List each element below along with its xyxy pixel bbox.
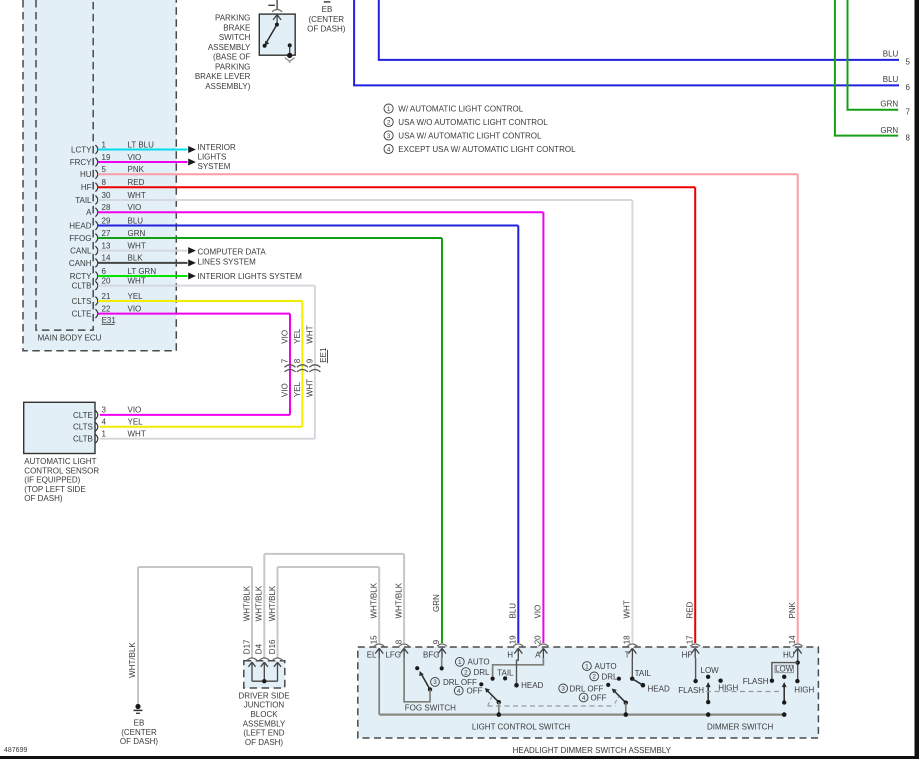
wire CLTS YEL horizontal: [98, 300, 302, 302]
svg-text:8: 8: [394, 639, 403, 644]
svg-text:4: 4: [387, 146, 391, 153]
LCS-left pivot dot: [497, 700, 501, 704]
terminal LFG arrow: [400, 648, 408, 658]
LCS-right circled 2 DRL: [590, 672, 599, 681]
svg-text:3: 3: [387, 133, 391, 140]
svg-text:WHT: WHT: [128, 430, 146, 439]
ECU pin CLTE connector bracket: [95, 309, 97, 318]
svg-text:21: 21: [102, 292, 111, 301]
LCS-left circled 2 DRL: [462, 668, 471, 677]
terminal H arrow: [514, 648, 522, 658]
LCS-right DRL contact dot: [617, 677, 621, 681]
svg-text:2: 2: [592, 674, 596, 681]
wire GRN 7 horizontal: [847, 109, 899, 111]
svg-text:JUNCTION: JUNCTION: [244, 701, 285, 710]
arrow to computer data lines (CANH): [188, 259, 196, 266]
svg-text:D16: D16: [268, 639, 277, 654]
svg-text:OF DASH): OF DASH): [307, 25, 346, 34]
wire CANL WHT: [98, 250, 188, 252]
dimmer-left pivot dot: [706, 700, 710, 704]
wire A VIO horizontal: [98, 211, 543, 213]
svg-text:1: 1: [585, 663, 589, 670]
svg-text:TAIL: TAIL: [497, 668, 514, 677]
parking brake ground dot: [287, 53, 292, 58]
wire HEAD BLU horizontal: [98, 225, 518, 227]
svg-text:CANL: CANL: [70, 247, 92, 256]
svg-text:20: 20: [102, 276, 111, 285]
junction block internal junction dot: [262, 679, 266, 683]
wire A VIO vertical: [542, 212, 544, 643]
svg-text:1: 1: [102, 140, 107, 149]
fog switch pivot dot: [428, 687, 432, 691]
svg-text:OF DASH): OF DASH): [24, 494, 63, 503]
svg-text:PNK: PNK: [788, 601, 797, 618]
parking brake switch upper contact: [276, 22, 278, 25]
svg-text:487699: 487699: [4, 747, 27, 754]
svg-text:VIO: VIO: [128, 153, 142, 162]
svg-text:ASSEMBLY: ASSEMBLY: [243, 719, 286, 728]
svg-text:15: 15: [369, 635, 378, 644]
svg-text:USA W/O AUTOMATIC LIGHT CONTRO: USA W/O AUTOMATIC LIGHT CONTROL: [398, 118, 548, 127]
wire EL vertical: [378, 567, 380, 643]
sensor pin CLTB connector bracket: [95, 434, 97, 443]
svg-text:4: 4: [582, 695, 586, 702]
arrow to computer data lines (CANL): [188, 247, 196, 254]
wire CLTB WHT horizontal: [98, 285, 315, 287]
wire D4 to LFG horizontal: [264, 553, 404, 555]
sensor pin CLTS connector bracket: [95, 422, 97, 431]
dimmer-right blade: [783, 686, 785, 703]
svg-text:BLU: BLU: [128, 216, 144, 225]
dimmer-right FLASH contact dot: [770, 679, 774, 683]
fog switch left contact dot: [415, 666, 419, 670]
svg-text:2: 2: [464, 669, 468, 676]
arrow to interior lights system (FRCY): [188, 159, 196, 166]
fog switch pivot to LFG path: [404, 658, 430, 702]
page frame right border: [915, 0, 920, 759]
LCS-left HEAD contact dot: [514, 683, 519, 688]
parking brake ground arrow: [285, 58, 295, 63]
svg-text:HF: HF: [682, 651, 693, 660]
svg-text:3: 3: [561, 686, 565, 693]
svg-text:ASSEMBLY): ASSEMBLY): [205, 82, 251, 91]
svg-text:29: 29: [102, 216, 111, 225]
svg-text:USA W/ AUTOMATIC LIGHT CONTROL: USA W/ AUTOMATIC LIGHT CONTROL: [398, 132, 542, 141]
ECU pin CLTB connector bracket: [95, 281, 97, 290]
LCS-right TAIL-HEAD diagonal: [632, 679, 643, 686]
svg-text:COMPUTER DATA: COMPUTER DATA: [198, 248, 267, 257]
junction block shaded dashed box: [244, 661, 285, 688]
svg-text:WHT: WHT: [128, 191, 146, 200]
EB ground symbol: [135, 704, 140, 709]
terminal H connector arc: [513, 644, 523, 646]
svg-text:(IF EQUIPPED): (IF EQUIPPED): [24, 476, 80, 485]
LCS mechanical link dashed line: [488, 705, 616, 707]
svg-text:CONTROL SENSOR: CONTROL SENSOR: [24, 466, 99, 475]
svg-text:AUTOMATIC LIGHT: AUTOMATIC LIGHT: [24, 457, 96, 466]
ECU pin LCTY connector bracket: [95, 145, 97, 154]
dimmer-left HF wire: [695, 658, 697, 681]
dimmer-right HU junction dot: [796, 660, 800, 664]
svg-text:LIGHTS: LIGHTS: [198, 153, 227, 162]
svg-text:FLASH: FLASH: [678, 686, 704, 695]
wire CLTS YEL lower horizontal: [100, 426, 302, 428]
svg-text:WHT/BLK: WHT/BLK: [242, 585, 251, 621]
svg-text:T: T: [625, 651, 630, 660]
svg-text:FFOG: FFOG: [69, 234, 91, 243]
svg-text:14: 14: [102, 254, 111, 263]
svg-text:HEAD: HEAD: [648, 684, 670, 693]
LCS-left circled 1 AUTO: [455, 657, 464, 666]
svg-text:A: A: [535, 651, 541, 660]
svg-text:PNK: PNK: [128, 165, 145, 174]
svg-text:FLASH: FLASH: [743, 677, 769, 686]
svg-text:WHT: WHT: [305, 379, 314, 397]
svg-text:YEL: YEL: [128, 418, 144, 427]
svg-text:CLTS: CLTS: [73, 423, 93, 432]
note 2 circled number: [384, 117, 393, 126]
wire HU PNK horizontal: [98, 173, 798, 175]
dimmer-right pivot dot: [782, 700, 786, 704]
svg-text:LIGHT CONTROL SWITCH: LIGHT CONTROL SWITCH: [472, 723, 570, 732]
svg-text:30: 30: [102, 191, 111, 200]
note 1 circled number: [384, 104, 393, 113]
svg-text:OF DASH): OF DASH): [245, 738, 284, 747]
svg-text:INTERIOR: INTERIOR: [198, 143, 236, 152]
svg-text:RED: RED: [128, 178, 145, 187]
LCS-right T wire: [631, 658, 633, 679]
svg-text:7: 7: [906, 107, 911, 116]
svg-text:BLU: BLU: [509, 603, 518, 619]
svg-text:AUTO: AUTO: [595, 662, 617, 671]
svg-text:4: 4: [102, 418, 107, 427]
svg-text:DRIVER SIDE: DRIVER SIDE: [238, 691, 289, 700]
wire BLU 5 horizontal: [378, 59, 899, 61]
svg-text:VIO: VIO: [534, 605, 543, 619]
ECU pin FRCY connector bracket: [95, 158, 97, 167]
fog switch blade: [421, 674, 430, 690]
svg-text:WHT/BLK: WHT/BLK: [255, 585, 264, 621]
junction block internal bus: [252, 680, 278, 682]
svg-text:W/ AUTOMATIC LIGHT CONTROL: W/ AUTOMATIC LIGHT CONTROL: [398, 105, 523, 114]
terminal T connector arc: [627, 644, 637, 646]
terminal HU connector arc: [793, 644, 803, 646]
svg-text:GRN: GRN: [880, 99, 898, 108]
wire RCTY LT GRN: [98, 275, 188, 277]
svg-text:20: 20: [534, 635, 543, 644]
svg-text:SYSTEM: SYSTEM: [198, 162, 231, 171]
svg-text:HF: HF: [81, 183, 92, 192]
svg-text:BLU: BLU: [883, 49, 899, 58]
svg-text:OF DASH): OF DASH): [120, 737, 159, 746]
svg-text:17: 17: [685, 635, 694, 644]
LCS-right DRL OFF contact dot: [606, 683, 610, 687]
svg-text:OFF: OFF: [591, 693, 607, 702]
wire D4 vertical: [263, 554, 265, 658]
svg-text:BFG: BFG: [423, 651, 439, 660]
svg-text:3: 3: [102, 406, 107, 415]
terminal HF connector arc: [690, 644, 700, 646]
svg-text:27: 27: [102, 229, 111, 238]
svg-text:BRAKE: BRAKE: [223, 23, 250, 32]
dimmer-right HU to FLASH path: [772, 663, 798, 681]
main body ECU shaded box: [23, 0, 176, 351]
LCS-left pivot to bus: [498, 702, 500, 714]
ECU pin FFOG connector bracket: [95, 234, 97, 243]
dimmer-left LOW contact dot: [706, 675, 710, 679]
LCS-left blade: [487, 691, 499, 703]
svg-text:8: 8: [293, 358, 302, 363]
svg-text:CLTB: CLTB: [73, 435, 93, 444]
EL wire vertical inside box: [378, 658, 380, 715]
svg-text:BLK: BLK: [128, 254, 144, 263]
wire CLTB WHT vertical: [314, 286, 316, 439]
LCS-left circled 3 DRL OFF: [431, 678, 440, 687]
LCS-right circled 4 OFF: [579, 693, 588, 702]
arrow to interior lights system (LCTY): [188, 146, 196, 153]
wire CLTE VIO vertical: [289, 314, 291, 415]
svg-text:GRN: GRN: [880, 126, 898, 135]
ECU pin CANL connector bracket: [95, 246, 97, 255]
wire GRN 8 horizontal: [834, 135, 898, 137]
svg-text:HEAD: HEAD: [69, 221, 91, 230]
LCS-right TAIL contact dot: [630, 677, 634, 681]
terminal BFG connector arc: [437, 644, 447, 646]
parking brake connector arc: [272, 10, 282, 12]
EB top ground symbol bar: [324, 1, 331, 3]
svg-text:LCTY: LCTY: [71, 145, 92, 154]
svg-text:GRN: GRN: [128, 229, 146, 238]
dimmer-right HU wire vertical: [797, 658, 799, 681]
wire D17 vertical: [251, 567, 253, 658]
svg-text:9: 9: [305, 358, 314, 363]
svg-text:BLU: BLU: [883, 75, 899, 84]
LCS-right HEAD contact dot: [641, 683, 646, 688]
svg-text:PARKING: PARKING: [215, 62, 250, 71]
svg-text:MAIN BODY ECU: MAIN BODY ECU: [38, 333, 102, 342]
svg-text:19: 19: [509, 635, 518, 644]
junction block terminal arrow D4: [261, 662, 268, 681]
svg-text:LT GRN: LT GRN: [128, 267, 157, 276]
svg-text:HEAD: HEAD: [521, 681, 543, 690]
bus junction dot LCS-left: [497, 712, 502, 717]
svg-text:WHT: WHT: [128, 241, 146, 250]
svg-text:E31: E31: [102, 316, 117, 325]
wire TAIL WHT vertical: [631, 200, 633, 643]
wire into parking brake switch: [276, 0, 278, 9]
svg-text:28: 28: [102, 203, 111, 212]
svg-text:3: 3: [433, 679, 437, 686]
svg-text:ASSEMBLY: ASSEMBLY: [208, 43, 251, 52]
sensor pin CLTE connector bracket: [95, 411, 97, 420]
svg-text:CLTB: CLTB: [72, 282, 92, 291]
svg-text:LOW: LOW: [701, 666, 720, 675]
svg-text:18: 18: [623, 635, 632, 644]
wire FRCY VIO: [98, 161, 188, 163]
svg-text:8: 8: [102, 178, 107, 187]
svg-text:BLOCK: BLOCK: [250, 710, 278, 719]
dimmer-right LOW box: [775, 665, 794, 672]
svg-text:CLTS: CLTS: [72, 297, 92, 306]
svg-text:BRAKE LEVER: BRAKE LEVER: [195, 72, 251, 81]
svg-text:2: 2: [387, 119, 391, 126]
wire HF RED vertical: [694, 187, 696, 643]
junction block connector arc D17: [247, 658, 257, 660]
svg-text:EL: EL: [367, 651, 377, 660]
svg-text:22: 22: [102, 304, 111, 313]
ECU pin CANH connector bracket: [95, 259, 97, 268]
svg-text:1: 1: [387, 106, 391, 113]
ECU pin HEAD connector bracket: [95, 221, 97, 230]
svg-text:7: 7: [280, 358, 289, 363]
svg-text:EB: EB: [322, 5, 333, 14]
svg-text:(CENTER: (CENTER: [121, 728, 157, 737]
svg-text:5: 5: [906, 58, 911, 67]
dimmer-left FLASH contact dot: [693, 679, 697, 683]
bus junction dot dimmer-left: [706, 712, 711, 717]
svg-text:LINES SYSTEM: LINES SYSTEM: [198, 257, 257, 266]
svg-text:19: 19: [102, 153, 111, 162]
svg-text:WHT/BLK: WHT/BLK: [268, 585, 277, 621]
terminal T arrow: [628, 648, 636, 658]
ECU pin A connector bracket: [95, 208, 97, 217]
wire GRN 8 vertical: [834, 0, 836, 136]
LCS-right pivot dot: [624, 701, 628, 705]
wire FFOG GRN vertical: [441, 238, 443, 643]
svg-text:CANH: CANH: [69, 259, 92, 268]
svg-text:9: 9: [432, 639, 441, 644]
svg-text:14: 14: [788, 635, 797, 644]
parking brake switch shaded box: [259, 14, 295, 55]
svg-text:CLTE: CLTE: [73, 411, 93, 420]
ECU pin HU connector bracket: [95, 170, 97, 179]
svg-text:EE1: EE1: [319, 347, 328, 363]
junction block connector arc D16: [273, 658, 283, 660]
wire GRN 7 vertical: [847, 0, 849, 110]
svg-text:FRCY: FRCY: [70, 158, 92, 167]
svg-text:1: 1: [102, 430, 107, 439]
wire LFG vertical: [403, 554, 405, 643]
svg-text:D17: D17: [242, 639, 251, 654]
ECU pin RCTY connector bracket: [95, 272, 97, 281]
svg-text:HEADLIGHT DIMMER SWITCH ASSEMB: HEADLIGHT DIMMER SWITCH ASSEMBLY: [513, 746, 672, 755]
auto light control sensor shaded box: [24, 402, 95, 453]
LCS-left link diagonal dash: [488, 697, 492, 706]
svg-text:VIO: VIO: [280, 330, 289, 344]
svg-text:A: A: [86, 208, 92, 217]
arrow to interior lights system (RCTY): [188, 273, 196, 280]
svg-text:HIGH: HIGH: [794, 685, 814, 694]
wire CLTE VIO lower horizontal: [100, 414, 290, 416]
dimmer-left blade: [707, 686, 709, 703]
svg-text:TAIL: TAIL: [635, 669, 652, 678]
svg-text:VIO: VIO: [128, 406, 142, 415]
LCS-right circled 3 DRL OFF: [559, 684, 568, 693]
svg-text:LOW: LOW: [775, 665, 794, 674]
wire EB to D17 horizontal: [138, 566, 252, 568]
junction block terminal arrow D17: [248, 662, 255, 681]
main bus line: [379, 713, 784, 715]
wire BLU 5 vertical: [378, 0, 380, 60]
dimmer-right LOW contact dot: [782, 675, 786, 679]
LCS-left A wire path: [493, 658, 544, 679]
fog switch right contact dot: [440, 666, 444, 670]
dimmer-right HIGH contact dot: [795, 679, 799, 683]
note 4 circled number: [384, 144, 393, 153]
svg-text:CLTE: CLTE: [72, 310, 92, 319]
LCS-left DRL OFF contact dot: [479, 682, 483, 686]
connector EE1 pin 7 symbol: [285, 365, 296, 367]
parking brake terminal arrow: [273, 15, 281, 22]
svg-text:INTERIOR LIGHTS SYSTEM: INTERIOR LIGHTS SYSTEM: [198, 272, 303, 281]
terminal EL connector arc: [374, 644, 384, 646]
ECU pin HF connector bracket: [95, 183, 97, 192]
svg-text:4: 4: [457, 688, 461, 695]
svg-text:TAIL: TAIL: [75, 196, 92, 205]
terminal BFG arrow: [438, 648, 446, 658]
wire D16 to EL horizontal: [278, 566, 380, 568]
wire CLTE VIO horizontal: [98, 313, 290, 315]
svg-text:HU: HU: [80, 170, 92, 179]
svg-text:H: H: [507, 651, 513, 660]
ECU pin TAIL connector bracket: [95, 196, 97, 205]
LCS-left H wire path: [517, 658, 519, 685]
wire D16 vertical: [277, 567, 279, 658]
junction block connector arc D4: [259, 658, 269, 660]
terminal HF arrow: [691, 648, 699, 658]
svg-text:RED: RED: [685, 601, 694, 618]
wire FFOG GRN horizontal: [98, 237, 442, 239]
svg-text:WHT: WHT: [623, 600, 632, 618]
svg-text:(TOP LEFT SIDE: (TOP LEFT SIDE: [24, 485, 85, 494]
bus junction dot LCS-right: [624, 712, 629, 717]
headlight dimmer switch assembly shaded dashed box: [358, 647, 819, 738]
wire CLTB WHT lower horizontal: [100, 438, 315, 440]
svg-text:(CENTER: (CENTER: [309, 15, 345, 24]
LCS-left circled 4 OFF: [454, 686, 463, 695]
terminal LFG connector arc: [399, 644, 409, 646]
wire BLU 6 horizontal: [353, 84, 899, 86]
svg-text:6: 6: [906, 83, 911, 92]
svg-text:EXCEPT USA W/ AUTOMATIC LIGHT: EXCEPT USA W/ AUTOMATIC LIGHT CONTROL: [398, 145, 576, 154]
wire HEAD BLU vertical: [517, 226, 519, 644]
svg-text:WHT: WHT: [128, 276, 146, 285]
bus end dot dimmer-right: [782, 712, 787, 717]
LCS-right link diagonal dash: [615, 696, 619, 703]
LCS-left AUTO/DRL contact dot: [491, 677, 495, 681]
svg-text:VIO: VIO: [128, 203, 142, 212]
svg-text:LFG: LFG: [385, 651, 401, 660]
wire HU PNK vertical: [797, 174, 799, 643]
svg-text:YEL: YEL: [128, 292, 144, 301]
svg-text:D4: D4: [255, 643, 264, 654]
LCS-right circled 1 AUTO: [583, 662, 592, 671]
svg-text:RCTY: RCTY: [70, 272, 92, 281]
svg-text:13: 13: [102, 241, 111, 250]
svg-text:VIO: VIO: [128, 304, 142, 313]
terminal A connector arc: [538, 644, 548, 646]
terminal EL arrow: [375, 648, 383, 658]
svg-text:VIO: VIO: [280, 383, 289, 397]
connector EE1 pin 9 symbol: [309, 365, 320, 367]
svg-text:WHT/BLK: WHT/BLK: [369, 582, 378, 618]
parking brake switch right contact: [288, 43, 292, 47]
svg-text:LT BLU: LT BLU: [128, 140, 155, 149]
svg-text:WHT/BLK: WHT/BLK: [128, 642, 137, 678]
wire CLTS YEL vertical: [301, 301, 303, 427]
dimmer-left HIGH contact dot: [718, 679, 722, 683]
page frame bottom border: [0, 756, 919, 759]
